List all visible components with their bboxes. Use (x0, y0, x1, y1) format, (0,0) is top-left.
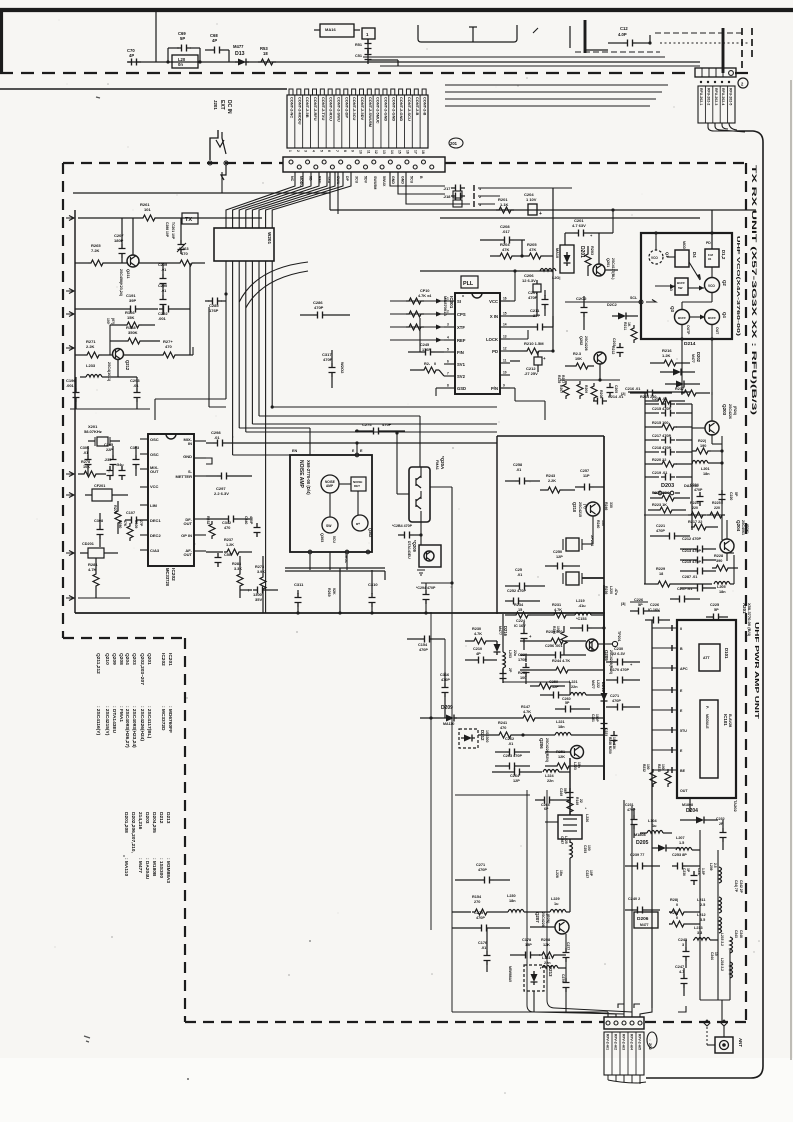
svg-text:1.5: 1.5 (679, 841, 684, 845)
wire (500, 375, 565, 420)
svg-text:4P: 4P (129, 53, 134, 58)
svg-text:C216 .01: C216 .01 (625, 387, 640, 391)
amplifier Q301 (321, 475, 339, 493)
resistor R283 (232, 556, 243, 598)
svg-text:RFV-2-A/1: RFV-2-A/1 (606, 1034, 610, 1050)
inductor L223 (573, 762, 581, 770)
svg-text:R230: R230 (472, 627, 481, 631)
svg-text:Q3: Q3 (670, 306, 675, 312)
resistor R223 (648, 503, 686, 513)
wire (75, 612, 605, 614)
svg-text:L221: L221 (556, 720, 565, 724)
resistor R274 (124, 339, 193, 358)
svg-text:Q4: Q4 (722, 312, 727, 318)
svg-text:2: 2 (447, 310, 449, 314)
wire (700, 830, 730, 1000)
svg-text:7.2K: 7.2K (91, 248, 100, 253)
svg-text:220: 220 (692, 506, 698, 510)
svg-text:92K: 92K (332, 588, 336, 595)
svg-text:350K: 350K (128, 330, 138, 335)
capacitor C304 (104, 458, 126, 480)
svg-text:C257: C257 (580, 469, 589, 473)
capacitor C223 (604, 728, 618, 745)
resistor R2x (410, 362, 444, 376)
svg-text:CP10: CP10 (420, 289, 430, 293)
svg-text:4.7K: 4.7K (474, 632, 482, 636)
svg-text:470P: 470P (323, 357, 333, 362)
svg-text:12P: 12P (513, 779, 520, 783)
resistor R233 (657, 764, 671, 787)
boundary TX RX unit (645, 1021, 746, 1023)
svg-text:100P: 100P (595, 714, 599, 723)
capacitor C305 (104, 443, 117, 476)
wire (70, 408, 150, 410)
wire (566, 1012, 616, 1017)
wire (363, 56, 665, 58)
svg-text:100': 100' (106, 318, 110, 325)
svg-text:OUT: OUT (680, 789, 688, 793)
capacitor C293 (118, 377, 141, 409)
label UHF PWR AMP UNIT (753, 622, 759, 720)
modulator D4 (667, 241, 697, 267)
resistor R278 (78, 460, 106, 477)
bracket (634, 1004, 640, 1008)
svg-text:C271: C271 (476, 863, 485, 867)
capacitor C206 (510, 273, 541, 316)
svg-text:2: 2 (296, 150, 300, 152)
transistor Q203 (692, 392, 737, 435)
inductor L202 (503, 614, 517, 678)
boundary TX RX unit (184, 638, 186, 1022)
svg-text:C220: C220 (729, 492, 733, 500)
svg-text:L223: L223 (573, 762, 577, 770)
svg-text:C309: C309 (134, 520, 138, 528)
resistor R258 (539, 938, 566, 958)
svg-text:C243: C243 (734, 930, 738, 938)
resistor R231c (518, 671, 565, 689)
node 1b (469, 27, 477, 42)
svg-text:GND: GND (400, 176, 404, 184)
resistor R241 (478, 721, 550, 738)
wire (189, 263, 191, 355)
capacitor C258 (505, 463, 540, 485)
svg-text:(6?): (6?) (111, 318, 115, 324)
svg-text:SW: SW (326, 524, 332, 528)
wire (66, 216, 74, 351)
svg-text:22n: 22n (571, 685, 578, 689)
svg-text:CONT-2-GND: CONT-2-GND (391, 97, 396, 121)
capacitor C202 (576, 296, 588, 330)
svg-text:Q303: Q303 (320, 533, 324, 542)
svg-text:C214 .01: C214 .01 (652, 397, 667, 401)
wire (74, 210, 76, 613)
svg-text:Q204: Q204 (736, 520, 741, 532)
inductor L216 (720, 958, 733, 978)
capacitor C208 (480, 224, 525, 244)
svg-text:FIN: FIN (457, 350, 464, 355)
diode D13 (233, 44, 249, 66)
resistor R217b (675, 387, 710, 396)
svg-text:1.5P: 1.5P (701, 868, 705, 876)
boundary TX RX unit (745, 163, 747, 1022)
svg-text:R22|: R22| (698, 439, 706, 443)
resistor R229 (644, 567, 712, 587)
svg-text:C308: C308 (94, 519, 103, 523)
wire (252, 423, 497, 425)
svg-text:L203: L203 (508, 650, 512, 658)
svg-text:: DTA143EU: : DTA143EU (111, 706, 117, 734)
svg-text:7: 7 (335, 150, 339, 152)
svg-text:GND: GND (391, 176, 395, 184)
inductor L215 (720, 933, 733, 953)
wire (708, 123, 745, 132)
smudge (96, 97, 100, 98)
wire (73, 172, 330, 210)
svg-text:P.: P. (705, 706, 709, 709)
svg-text:C217 470P: C217 470P (652, 434, 671, 438)
svg-text:L222: L222 (596, 680, 600, 688)
svg-text:47K: 47K (502, 247, 509, 252)
svg-text:.001: .001 (158, 316, 167, 321)
svg-text:: 2SC4226(H24): : 2SC4226(H24) (139, 706, 145, 741)
capacitor C210b (465, 647, 497, 664)
module UHF VCO (641, 233, 741, 339)
resistor R240 (596, 520, 605, 528)
svg-text:ANT: ANT (738, 1038, 743, 1047)
capacitor C244 (710, 952, 718, 960)
svg-text:C249: C249 (559, 788, 563, 796)
svg-text:2.5: 2.5 (700, 903, 705, 907)
svg-text:R241: R241 (498, 721, 507, 725)
wire (628, 391, 690, 393)
svg-text:470P: 470P (441, 678, 450, 682)
svg-text:12 6.3V: 12 6.3V (522, 278, 536, 283)
svg-text:DTA143EU: DTA143EU (407, 541, 411, 559)
capacitor C216 (625, 387, 672, 397)
svg-text:8: 8 (447, 384, 449, 388)
capacitor C249 (559, 788, 574, 802)
svg-text:CONT-2-GND: CONT-2-GND (399, 97, 404, 121)
svg-text:176P: 176P (209, 308, 219, 313)
boundary TX RX unit (445, 162, 746, 164)
svg-text:390: 390 (716, 559, 722, 563)
svg-text:R240: R240 (596, 520, 600, 528)
inductor L219 (575, 599, 604, 615)
table parts list 2 (123, 812, 171, 883)
svg-text:L228: L228 (555, 870, 559, 878)
svg-text:L104: L104 (648, 819, 658, 823)
svg-text:CONT-2-SWU: CONT-2-SWU (336, 97, 341, 122)
label TX (182, 213, 198, 224)
transistor Q206 (539, 738, 584, 762)
capacitor C213 (680, 549, 716, 564)
svg-text:BUFF: BUFF (708, 316, 716, 320)
svg-text:C225: C225 (710, 603, 719, 607)
svg-text:5P: 5P (565, 701, 570, 705)
svg-text:RFV-2-A/5: RFV-2-A/5 (638, 1034, 642, 1050)
svg-text:C244: C244 (710, 952, 714, 960)
ic IC202 (148, 434, 194, 587)
svg-text:3.9K: 3.9K (257, 570, 265, 574)
wire (329, 172, 331, 210)
svg-text:R251: R251 (556, 750, 565, 754)
svg-text:56P: 56P (563, 788, 567, 795)
wire (569, 758, 571, 815)
svg-text:1SS300: 1SS300 (485, 730, 489, 743)
svg-text:C305: C305 (104, 443, 113, 447)
amplifier Q302 (352, 515, 372, 537)
svg-text:9: 9 (351, 150, 355, 152)
svg-text:C/A3: C/A3 (150, 548, 160, 553)
svg-text:PD: PD (706, 241, 711, 245)
svg-text:TC201 10P: TC201 10P (171, 222, 175, 240)
wire (128, 61, 530, 63)
svg-text:4.7 63V: 4.7 63V (572, 223, 586, 228)
wire (406, 172, 445, 204)
label 100 (106, 318, 115, 325)
svg-text:Q205: Q205 (604, 650, 609, 661)
svg-text:16: 16 (405, 150, 409, 154)
wire (390, 338, 444, 343)
wire (419, 318, 421, 352)
svg-text:IN: IN (188, 441, 192, 446)
svg-text:SV1: SV1 (457, 362, 466, 367)
svg-text:C275: C275 (474, 911, 483, 915)
svg-text:OUTP: OUTP (686, 325, 690, 335)
diode D1 D2 (705, 210, 726, 267)
cable W201 (214, 228, 274, 261)
svg-text:D214: D214 (684, 341, 696, 347)
svg-text:470P: 470P (476, 916, 485, 920)
svg-text:W2O2: W2O2 (340, 362, 345, 374)
wire (497, 436, 604, 614)
svg-text:18n: 18n (559, 870, 563, 876)
node 2b (621, 391, 645, 396)
node 202 (647, 1032, 657, 1050)
svg-text:METTER: METTER (176, 474, 193, 479)
smudge (187, 1078, 189, 1080)
diode D209 (420, 705, 457, 726)
svg-text:R2.3: R2.3 (573, 352, 581, 356)
svg-text:R231: R231 (552, 603, 561, 607)
svg-text:5CU: 5CU (332, 536, 336, 543)
svg-text:|2|: |2| (621, 391, 625, 396)
svg-text:CPS: CPS (457, 312, 466, 317)
svg-text:DET: DET (354, 484, 360, 488)
svg-text:R232: R232 (206, 516, 210, 524)
svg-text:R228: R228 (714, 554, 723, 558)
node SCL (639, 300, 656, 305)
svg-text:C245: C245 (420, 343, 429, 347)
capacitor C285 (205, 292, 228, 313)
node 2 (738, 78, 748, 88)
svg-text:: M180B: : M180B (151, 858, 157, 877)
svg-text:18n: 18n (703, 472, 710, 476)
svg-text:R233: R233 (657, 764, 661, 772)
svg-text:IC101: IC101 (723, 714, 728, 726)
resistor R205 (520, 240, 553, 259)
svg-text:GSD: GSD (457, 386, 466, 391)
svg-text:*Q20A: *Q20A (440, 456, 445, 470)
capacitor C205 (607, 383, 619, 397)
capacitor C311 (294, 582, 304, 615)
svg-text:18: 18 (263, 51, 268, 56)
svg-text:6P: 6P (544, 807, 549, 811)
svg-text:BUFF: BUFF (678, 316, 686, 320)
page edge (0, 10, 3, 74)
svg-text:6: 6 (447, 360, 449, 364)
svg-text:D202,206,207,210,: D202,206,207,210, (130, 812, 136, 853)
wire (624, 800, 632, 1017)
svg-text:VCC: VCC (150, 484, 159, 489)
svg-text:.01: .01 (214, 435, 220, 440)
wire (337, 172, 339, 214)
svg-text:VCO: VCO (708, 284, 715, 288)
svg-text:1.2K: 1.2K (662, 353, 671, 358)
wire (547, 790, 632, 1012)
svg-text:R149: R149 (575, 797, 579, 805)
svg-text:REF: REF (457, 338, 466, 343)
svg-text:C279: C279 (561, 974, 565, 982)
wire (651, 620, 653, 800)
wire (691, 404, 693, 530)
svg-text:CF201: CF201 (94, 484, 105, 488)
svg-text:3: 3 (304, 150, 308, 152)
transistor Q4 (690, 310, 727, 336)
svg-text:*Q209: *Q209 (412, 540, 417, 553)
capacitor C211 (510, 308, 553, 331)
svg-text:OUT: OUT (184, 521, 193, 526)
svg-text:R234: R234 (514, 603, 524, 607)
capacitor C300 (240, 587, 278, 603)
wire (644, 514, 722, 516)
svg-text:12: 12 (503, 347, 507, 351)
svg-text:D209: D209 (441, 705, 453, 711)
svg-text:CONT-2-SWU5M: CONT-2-SWU5M (368, 97, 373, 127)
capacitor C245b (408, 343, 444, 356)
capacitor C310 (368, 570, 378, 615)
svg-text:1u: 1u (554, 902, 559, 906)
svg-text:CD201: CD201 (82, 542, 94, 546)
svg-text:1K: 1K (627, 322, 631, 327)
svg-text:100: 100 (556, 626, 560, 632)
svg-text:R278: R278 (81, 460, 90, 464)
connector CN202 (604, 1017, 644, 1029)
inductor L225 (560, 836, 573, 912)
svg-text:MODULE: MODULE (705, 714, 709, 729)
svg-text:12K: 12K (558, 755, 565, 759)
wire (585, 20, 608, 53)
svg-text:Q203: Q203 (722, 404, 727, 416)
svg-text:M477: M477 (640, 923, 649, 927)
svg-text:5DV: 5DV (364, 176, 368, 184)
svg-text:CONT-2-3CU: CONT-2-3CU (352, 97, 357, 121)
svg-text:58.07KHz: 58.07KHz (84, 429, 102, 434)
svg-text:ATT: ATT (703, 656, 711, 660)
capacitor C196 (66, 377, 80, 409)
svg-text:5W: 5W (678, 286, 683, 290)
svg-text:UHF VCO(X4A-3760-00): UHF VCO(X4A-3760-00) (736, 236, 741, 337)
wire (646, 131, 763, 1078)
svg-text:MA110: MA110 (443, 722, 454, 726)
svg-text:Q210: Q210 (104, 653, 110, 665)
svg-text:201: 201 (450, 141, 458, 146)
resistor R209 (577, 381, 588, 399)
svg-text:C288 10P: C288 10P (165, 222, 169, 238)
capacitor C225 (706, 603, 728, 621)
svg-text:.217: .217 (443, 187, 450, 191)
svg-text:BE: BE (680, 769, 686, 773)
wire (445, 98, 656, 100)
svg-text:470P: 470P (419, 648, 428, 652)
svg-text:17: 17 (413, 150, 417, 154)
capacitor C214b (645, 397, 692, 408)
antenna ANT (707, 1026, 743, 1053)
svg-text:CONT-2-RFU: CONT-2-RFU (313, 97, 318, 121)
svg-text:2.2K: 2.2K (86, 344, 95, 349)
resistor R263 (139, 246, 205, 266)
svg-text:L230: L230 (507, 894, 516, 898)
svg-text:L229: L229 (551, 897, 560, 901)
buffer D3 (655, 278, 688, 295)
capacitor C271 (606, 694, 640, 711)
svg-text:MA10: MA10 (555, 248, 559, 258)
svg-text:5P: 5P (714, 608, 719, 612)
capacitor C259 (540, 680, 570, 699)
svg-text:7: 7 (447, 372, 449, 376)
svg-text:C51: C51 (355, 54, 362, 58)
capacitor C241 (734, 880, 743, 894)
svg-text:C303: C303 (130, 446, 139, 450)
svg-text:15: 15 (503, 312, 507, 316)
svg-text:: 2SC4116(Y): : 2SC4116(Y) (95, 706, 101, 735)
svg-text:CONT-2-SCU: CONT-2-SCU (407, 97, 412, 121)
wire (452, 583, 534, 1012)
svg-text:SI: SI (457, 299, 461, 304)
transistor Q201 (593, 233, 618, 279)
svg-text:XTF: XTF (457, 325, 465, 330)
svg-text:L209: L209 (709, 863, 713, 871)
svg-text:Q201: Q201 (606, 258, 610, 267)
capacitor C260 (555, 697, 590, 713)
capacitor C292 (158, 306, 190, 322)
svg-text:DC IN: DC IN (226, 100, 232, 114)
svg-text:10K: 10K (83, 465, 90, 469)
capacitor C227b (585, 870, 593, 878)
svg-text:R211: R211 (623, 322, 627, 330)
svg-text:4.0P: 4.0P (618, 32, 627, 37)
svg-text:RFU-202-1: RFU-202-1 (699, 88, 703, 105)
resistor R249 (567, 797, 583, 815)
svg-text:Q210: Q210 (572, 502, 577, 513)
wire (445, 91, 662, 93)
resistor R154 (452, 895, 505, 915)
wire (533, 28, 538, 33)
svg-text:NC: NC (290, 176, 294, 182)
svg-text:L224: L224 (545, 774, 555, 778)
switch Q303 (320, 517, 338, 542)
resistor R168 (110, 325, 160, 355)
wire (712, 434, 722, 444)
module Q20A (409, 456, 452, 522)
capacitor C257 (575, 469, 604, 491)
wire (0, 88, 287, 90)
connector CN202 labels (604, 1032, 644, 1084)
capacitor C224b (690, 483, 704, 506)
capacitor C247 (675, 965, 688, 996)
svg-text:C247: C247 (675, 965, 684, 969)
svg-text:RFU-202-5: RFU-202-5 (729, 88, 733, 105)
